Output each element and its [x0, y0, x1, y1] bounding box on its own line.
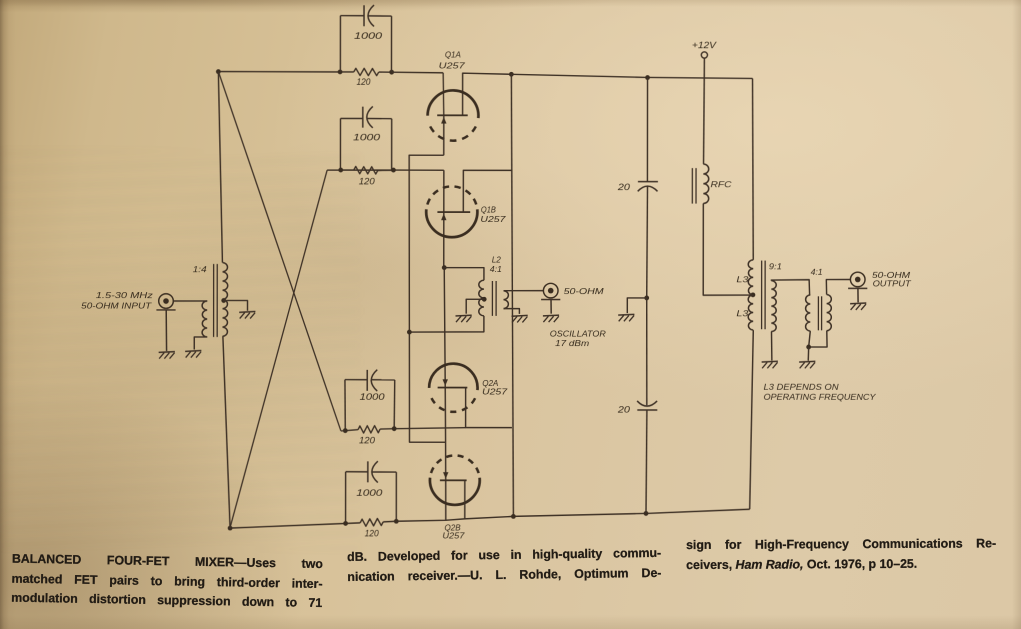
wire: drain bus vertical: [511, 74, 514, 516]
svg-text:L3 DEPENDS ON: L3 DEPENDS ON: [764, 382, 840, 392]
node: R2 right: [391, 168, 396, 173]
node: R3 left: [343, 428, 348, 433]
node: bottom junction input transformer: [228, 526, 233, 531]
ground at T3: [799, 360, 815, 363]
wire: row3 node to Q2A source: [394, 428, 465, 429]
node: L2 primary center tap: [482, 297, 487, 302]
svg-text:U257: U257: [442, 531, 464, 541]
svg-text:L2: L2: [492, 256, 501, 265]
svg-text:RFC: RFC: [711, 179, 733, 189]
svg-text:Q1B: Q1B: [481, 204, 496, 214]
wire: diagonal cross A (top junction to row3): [218, 72, 341, 431]
wire: Q2B drain to bottom bus: [464, 480, 466, 519]
svg-text:U257: U257: [439, 60, 465, 70]
svg-text:4:1: 4:1: [811, 267, 823, 277]
svg-text:OPERATING FREQUENCY: OPERATING FREQUENCY: [764, 392, 878, 402]
wire: RFC bottom to L3 center tap: [703, 203, 750, 295]
faint show-through of reverse page text: [0, 150, 360, 550]
svg-text:120: 120: [356, 77, 370, 87]
wire: gate rail down to Q2A and Q2B: [444, 268, 446, 521]
wire: top bus from input transformer to R1: [218, 71, 340, 73]
svg-text:OUTPUT: OUTPUT: [873, 278, 912, 288]
wire: T1 secondary top to top bus: [218, 72, 223, 263]
wire: T3 primary bottom to junction: [809, 331, 811, 347]
svg-text:20: 20: [617, 182, 630, 192]
wire: +12V to top branch: [703, 58, 705, 78]
node: gate rail / L2 primary top: [442, 265, 447, 270]
wire: T3 bottom junction to ground: [807, 347, 809, 361]
ground at L2 secondary: [511, 314, 527, 317]
capacitor C2 1000 box row2: [339, 118, 341, 170]
wire: mid junction to ground: [627, 298, 646, 313]
wire: T1 secondary bottom to bottom junction: [223, 336, 231, 528]
svg-text:1000: 1000: [356, 487, 383, 498]
wire: output jack stub to ground: [857, 288, 859, 302]
svg-text:17 dBm: 17 dBm: [555, 338, 589, 348]
svg-text:4:1: 4:1: [490, 265, 502, 274]
svg-text:50-OHM: 50-OHM: [564, 286, 604, 296]
ground at T1 center tap: [239, 311, 255, 314]
transistor Q1B U257: [443, 170, 445, 268]
wire: L2 secondary bottom to ground: [504, 309, 520, 314]
connector J2 oscillator input jack: [543, 283, 558, 298]
inductor L2 4:1 oscillator transformer: [444, 268, 484, 281]
node: left rail / L2 primary bottom: [407, 330, 412, 335]
transistor Q1A U257: [442, 73, 445, 116]
caption column 2: [347, 544, 661, 587]
capacitor C3 1000 box row3: [344, 380, 346, 431]
node: drain bus top junction: [509, 72, 514, 77]
capacitor C1 1000 bypass box row1: [339, 16, 341, 72]
wire: Q2A drain to drain bus: [466, 388, 512, 428]
inductor RFC choke: [703, 78, 706, 164]
ground at L3 secondary: [762, 360, 778, 363]
node: 20pF column to bottom bus: [644, 511, 649, 516]
svg-text:Q1A: Q1A: [445, 49, 461, 59]
wire: input jack to T1 primary: [173, 300, 207, 302]
node: R4 left: [343, 521, 348, 526]
ground at oscillator jack: [543, 314, 559, 317]
svg-text:L3: L3: [736, 274, 748, 284]
transistor Q2A U257: [429, 364, 477, 390]
svg-text:1.5-30 MHz: 1.5-30 MHz: [96, 290, 154, 300]
svg-text:1000: 1000: [353, 131, 381, 142]
svg-text:9:1: 9:1: [769, 261, 782, 271]
capacitor C4 1000 box row4: [345, 472, 347, 524]
wire: T3 secondary bottom to junction: [809, 331, 827, 347]
node: R2 left: [338, 168, 343, 173]
caption column 3: [686, 535, 996, 576]
svg-text:120: 120: [359, 176, 375, 186]
wire: L3 secondary bottom to ground: [770, 332, 772, 361]
wire: L3 primary bottom to bottom bus corner: [750, 330, 754, 509]
resistor R1 120 (row 1): [354, 68, 379, 75]
ground at 20pF column: [618, 313, 634, 316]
node: 20pF column mid junction: [644, 296, 649, 301]
node: top-left junction: [216, 69, 221, 74]
capacitor C5 20 (upper): [646, 77, 648, 181]
svg-text:120: 120: [365, 528, 379, 538]
wire: L2 center tap to ground: [466, 299, 484, 314]
resistor R3 120 (row 3): [358, 426, 380, 433]
resistor R4 120 (row 4, in bottom bus): [360, 518, 383, 526]
svg-text:U257: U257: [480, 214, 505, 224]
transformer T3 4:1 output: [806, 295, 811, 331]
svg-text:50-OHM INPUT: 50-OHM INPUT: [81, 301, 152, 311]
wire: T1 center tap to ground: [224, 300, 248, 310]
wire: Q1A gate jog to left rail: [409, 155, 446, 442]
node: T3 bottom junction: [806, 345, 811, 350]
ground at L2 center tap: [455, 314, 471, 317]
svg-text:L3: L3: [736, 308, 748, 318]
wire: L3 secondary top to T3: [771, 280, 809, 295]
node: L3 center tap: [751, 292, 756, 297]
resistor R2 120 (row 2): [354, 166, 378, 174]
caption column 1: [11, 550, 323, 614]
wire: L2 primary bottom to left rail: [409, 316, 484, 332]
ground at output jack: [850, 302, 866, 305]
node: R3 right: [392, 426, 397, 431]
wire: oscillator jack stub to ground: [550, 300, 552, 314]
wire: Q1B drain to drain bus: [463, 170, 511, 212]
connector J3 output jack: [850, 272, 865, 287]
node: R1 left: [338, 70, 343, 75]
transistor Q2B U257: [430, 478, 480, 505]
wire: row2 node to Q1B: [327, 169, 444, 171]
wire: input jack stub to ground: [165, 310, 167, 351]
wire: diagonal cross B (bottom junction to row2): [230, 170, 327, 528]
node: R1 right: [389, 70, 394, 75]
wire: bus R1 to Q1A gate-lead corner: [392, 71, 444, 74]
svg-text:120: 120: [359, 435, 375, 445]
wire: L2 secondary top to oscillator jack: [504, 290, 544, 292]
ground at input jack: [159, 351, 175, 354]
node: T1 center tap: [221, 298, 226, 303]
inductor L3 9:1 output transformer: [748, 260, 753, 330]
svg-text:+12V: +12V: [692, 40, 717, 50]
wire: Q1A right lead to drain-bus junction: [463, 73, 512, 115]
node: top bus / 20pF column junction: [645, 75, 650, 80]
ground at T1 primary: [185, 350, 201, 353]
connector J1 RF input jack: [159, 294, 174, 309]
capacitor C6 20 (lower): [646, 298, 648, 405]
svg-text:U257: U257: [482, 387, 507, 397]
node: drain bus to bottom bus: [511, 514, 516, 519]
wire: T1 primary bottom to ground: [194, 337, 207, 350]
node: R4 right: [394, 519, 399, 524]
wire: T3 secondary top to output jack: [826, 279, 850, 294]
svg-text:20: 20: [617, 405, 630, 415]
svg-text:1000: 1000: [354, 30, 383, 41]
svg-text:1:4: 1:4: [193, 264, 207, 274]
wire: bottom bus: [230, 523, 346, 528]
wire: top branch down to L3 primary: [752, 78, 753, 259]
wire: top bus to +12V branch corner: [511, 74, 752, 78]
svg-text:1000: 1000: [360, 391, 386, 402]
